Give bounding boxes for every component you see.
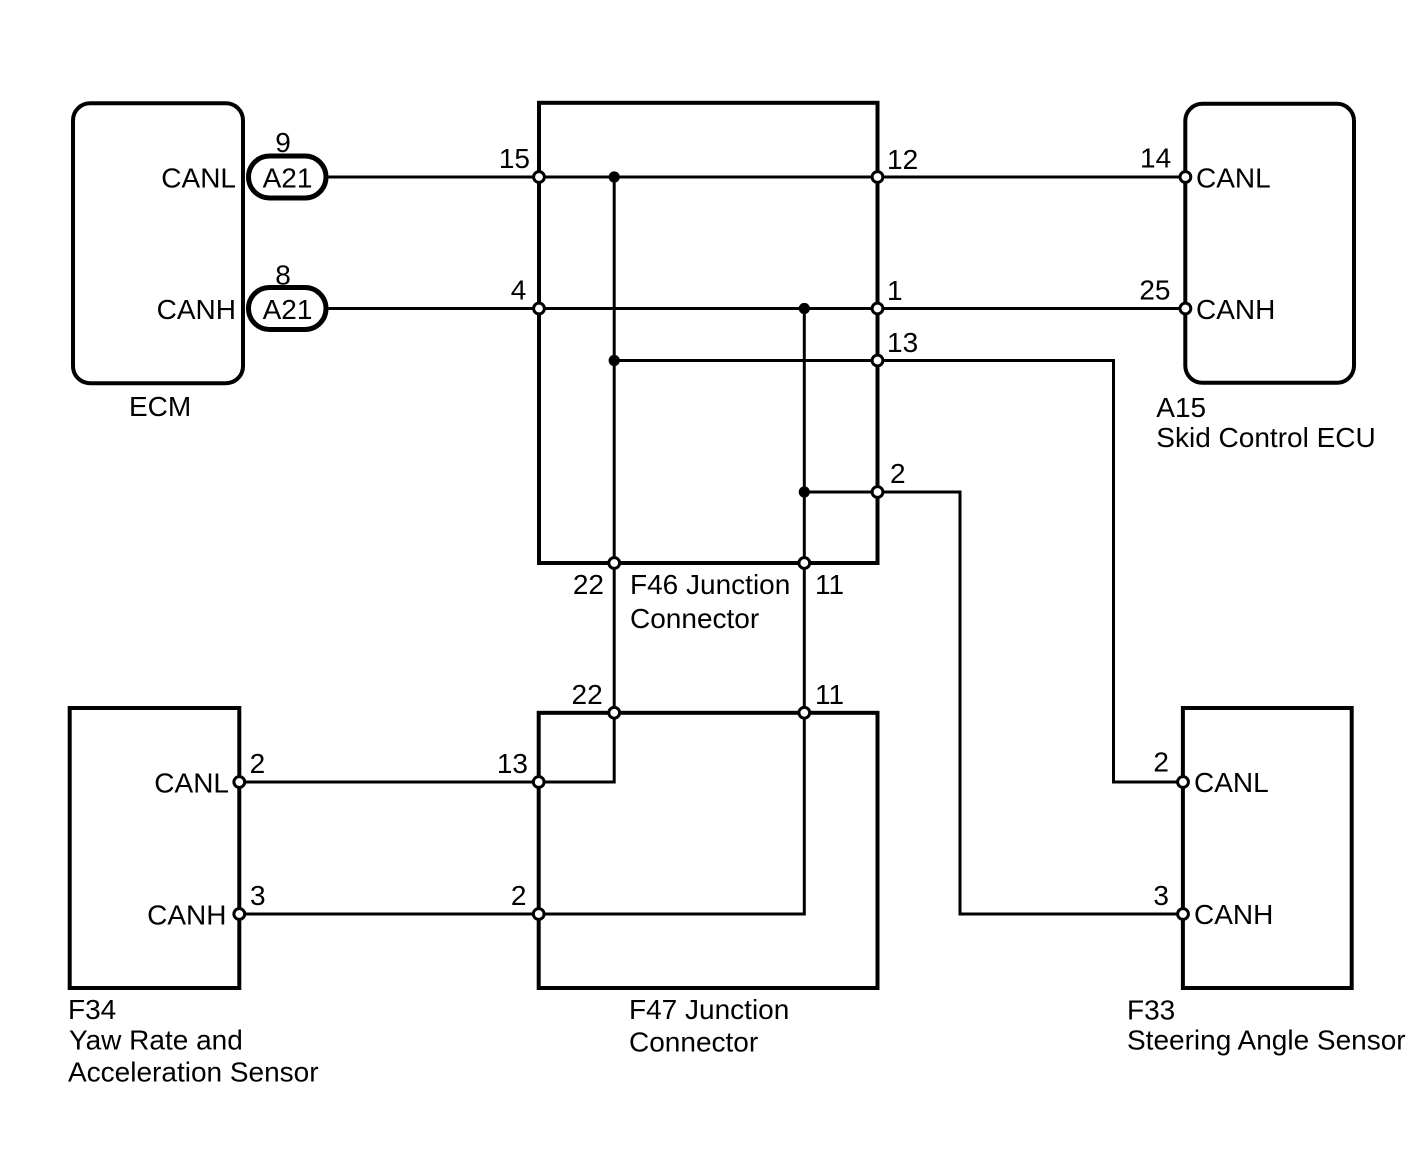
F46 pin 4 <box>534 303 545 314</box>
F47 pin 13 <box>533 777 544 788</box>
svg-text:2: 2 <box>250 748 266 779</box>
svg-text:2: 2 <box>511 880 527 911</box>
svg-text:CANL: CANL <box>1196 163 1271 194</box>
svg-text:CANL: CANL <box>161 163 236 194</box>
junction dot on CANL wire at x=614 <box>609 171 620 182</box>
F46 pin 15 <box>534 172 545 183</box>
svg-text:22: 22 <box>572 679 603 710</box>
F47 pin 2 <box>533 909 544 920</box>
svg-text:F46 Junction: F46 Junction <box>630 569 790 600</box>
svg-text:A21: A21 <box>263 163 313 194</box>
A15 pin 25 <box>1180 303 1191 314</box>
svg-text:13: 13 <box>887 327 918 358</box>
svg-text:4: 4 <box>511 275 527 306</box>
wire CANH net: ECM A21 to F46 pin4, pin1 to A15 pin25 <box>329 307 1186 310</box>
svg-text:3: 3 <box>250 880 266 911</box>
F34 Yaw Rate and Acceleration Sensor box <box>70 708 240 988</box>
svg-text:ECM: ECM <box>129 391 191 422</box>
svg-text:Yaw Rate and: Yaw Rate and <box>69 1025 243 1056</box>
F33 Steering Angle Sensor box <box>1183 708 1352 988</box>
svg-text:Steering Angle Sensor: Steering Angle Sensor <box>1127 1025 1406 1056</box>
wire F34 pin3 to F47 pin2, up to F47 pin11 <box>239 713 804 914</box>
connector A21 pill lower (ECM CANH pin 8) <box>249 288 327 330</box>
svg-text:Connector: Connector <box>629 1027 758 1058</box>
svg-text:CANL: CANL <box>154 768 229 799</box>
svg-text:CANH: CANH <box>1196 294 1275 325</box>
svg-text:F34: F34 <box>68 994 116 1025</box>
svg-text:Connector: Connector <box>630 603 759 634</box>
junction dot on CANH wire at x=804 <box>799 303 810 314</box>
svg-text:2: 2 <box>1153 747 1169 778</box>
svg-text:22: 22 <box>573 569 604 600</box>
svg-text:11: 11 <box>815 679 844 710</box>
ECM box <box>73 103 243 383</box>
wire vertical branch x=614 from CANL wire through F46 pin22 down to F47 pin22 <box>613 177 616 713</box>
svg-text:2: 2 <box>890 458 906 489</box>
F47 pin 11 <box>799 707 810 718</box>
F46 pin 2 <box>872 487 883 498</box>
F46 pin 22 <box>609 558 620 569</box>
F34 pin 2 <box>234 777 245 788</box>
F47 pin 22 <box>609 707 620 718</box>
svg-text:CANH: CANH <box>1194 899 1273 930</box>
junction dot at branch to F46 pin13 <box>609 355 620 366</box>
svg-text:F33: F33 <box>1127 995 1175 1026</box>
junction dot at branch to F46 pin2 <box>799 486 810 497</box>
svg-text:1: 1 <box>887 275 903 306</box>
F46 pin 11 <box>799 558 810 569</box>
F46 junction connector box <box>539 103 878 563</box>
wire vertical branch x=804 from CANH wire through F46 pin11 down to F47 pin11 <box>803 309 806 713</box>
svg-text:13: 13 <box>497 748 528 779</box>
F33 pin 3 <box>1178 909 1189 920</box>
svg-text:F47 Junction: F47 Junction <box>629 994 789 1025</box>
F47 junction connector box <box>539 713 878 988</box>
svg-text:14: 14 <box>1140 143 1171 174</box>
svg-text:A21: A21 <box>263 294 313 325</box>
wire from branch to F46 pin13 then to F33 pin2 (CANL) <box>614 361 1183 783</box>
svg-text:25: 25 <box>1139 275 1170 306</box>
svg-text:9: 9 <box>275 127 291 158</box>
svg-text:Acceleration Sensor: Acceleration Sensor <box>68 1057 319 1088</box>
A15 Skid Control ECU box <box>1185 104 1354 383</box>
F46 pin 12 <box>872 172 883 183</box>
svg-text:15: 15 <box>499 143 530 174</box>
wire CANL net: ECM A21 to F46 pin15, pin12 to A15 pin14 <box>329 176 1186 179</box>
svg-text:CANH: CANH <box>157 294 236 325</box>
svg-text:CANH: CANH <box>147 900 226 931</box>
svg-text:A15: A15 <box>1156 392 1206 423</box>
wire from branch to F46 pin2 then to F33 pin3 (CANH) <box>804 492 1183 914</box>
svg-text:8: 8 <box>275 260 291 291</box>
svg-text:Skid Control ECU: Skid Control ECU <box>1156 422 1375 453</box>
svg-text:3: 3 <box>1153 880 1169 911</box>
F46 pin 13 <box>872 355 883 366</box>
svg-text:11: 11 <box>815 569 844 600</box>
connector A21 pill upper (ECM CANL pin 9) <box>249 156 327 198</box>
wire F34 pin2 to F47 pin13, up to F47 pin22 <box>239 713 614 782</box>
svg-text:12: 12 <box>887 144 918 175</box>
F33 pin 2 <box>1178 777 1189 788</box>
F46 pin 1 <box>872 303 883 314</box>
svg-text:CANL: CANL <box>1194 767 1269 798</box>
F34 pin 3 <box>234 909 245 920</box>
A15 pin 14 <box>1180 172 1191 183</box>
